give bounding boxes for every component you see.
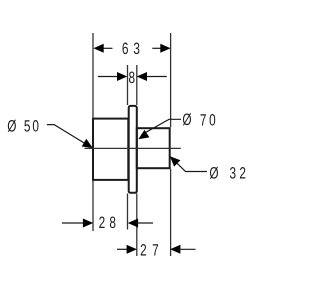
leader O32 arrow xyxy=(170,156,181,166)
dim 28 tail right xyxy=(136,222,153,224)
svg-text:8: 8 xyxy=(129,69,136,87)
svg-text:3: 3 xyxy=(133,40,140,58)
extension line flange-right bottom xyxy=(136,194,138,257)
extension line flange-left bottom xyxy=(127,194,129,230)
centerline xyxy=(85,147,181,149)
svg-text:Ø: Ø xyxy=(209,164,218,182)
svg-text:Ø: Ø xyxy=(7,117,16,135)
svg-text:5: 5 xyxy=(24,118,31,136)
extension line left top xyxy=(92,33,94,118)
dim 28 arrow right xyxy=(128,219,138,228)
svg-text:8: 8 xyxy=(109,214,116,232)
dim text 28 xyxy=(99,214,116,232)
dim 8 arrow left xyxy=(117,72,127,81)
dim 63 line right segment xyxy=(152,47,162,49)
leader O70 xyxy=(142,119,182,135)
leader O32 xyxy=(173,159,207,171)
svg-text:0: 0 xyxy=(32,118,39,136)
svg-text:0: 0 xyxy=(209,111,216,129)
dim text 63 xyxy=(122,40,140,58)
label O32 xyxy=(209,164,246,182)
extension line right bottom xyxy=(170,169,172,256)
svg-text:3: 3 xyxy=(230,165,237,183)
svg-text:7: 7 xyxy=(152,241,159,259)
extension line flange-right top xyxy=(136,65,138,105)
extension line left bottom xyxy=(92,181,94,231)
extension line flange-left top xyxy=(127,65,129,105)
svg-text:2: 2 xyxy=(99,214,106,232)
dim 8 tail right xyxy=(145,76,167,78)
dim 27 tail left xyxy=(117,248,130,250)
dim 27 arrow left xyxy=(127,245,137,254)
leader O50 xyxy=(47,125,90,147)
leader O50 arrow xyxy=(82,139,93,148)
flange O70 xyxy=(129,106,137,193)
dim 27 arrow right xyxy=(170,245,180,254)
spigot cylinder O32 xyxy=(137,128,170,168)
svg-text:2: 2 xyxy=(239,165,246,183)
svg-text:2: 2 xyxy=(140,241,147,259)
dim 27 tail right xyxy=(178,248,196,250)
dim 28 tail left xyxy=(62,222,83,224)
dim 63 arrow right xyxy=(160,44,170,53)
leader O70 arrow xyxy=(138,130,149,139)
dim 8 arrow right xyxy=(137,72,147,81)
label O70 xyxy=(182,111,215,129)
dim 63 arrow left xyxy=(93,44,103,53)
label O50 xyxy=(7,117,39,135)
dim 63 line left segment xyxy=(103,47,113,49)
svg-text:Ø: Ø xyxy=(182,111,191,129)
body cylinder O50 xyxy=(93,119,128,180)
dim 28 arrow left xyxy=(83,219,93,228)
dim text 27 xyxy=(140,241,159,259)
svg-text:6: 6 xyxy=(122,40,129,58)
svg-text:7: 7 xyxy=(200,111,207,129)
dim 8 tail left xyxy=(98,76,119,78)
extension line right top xyxy=(170,33,172,127)
